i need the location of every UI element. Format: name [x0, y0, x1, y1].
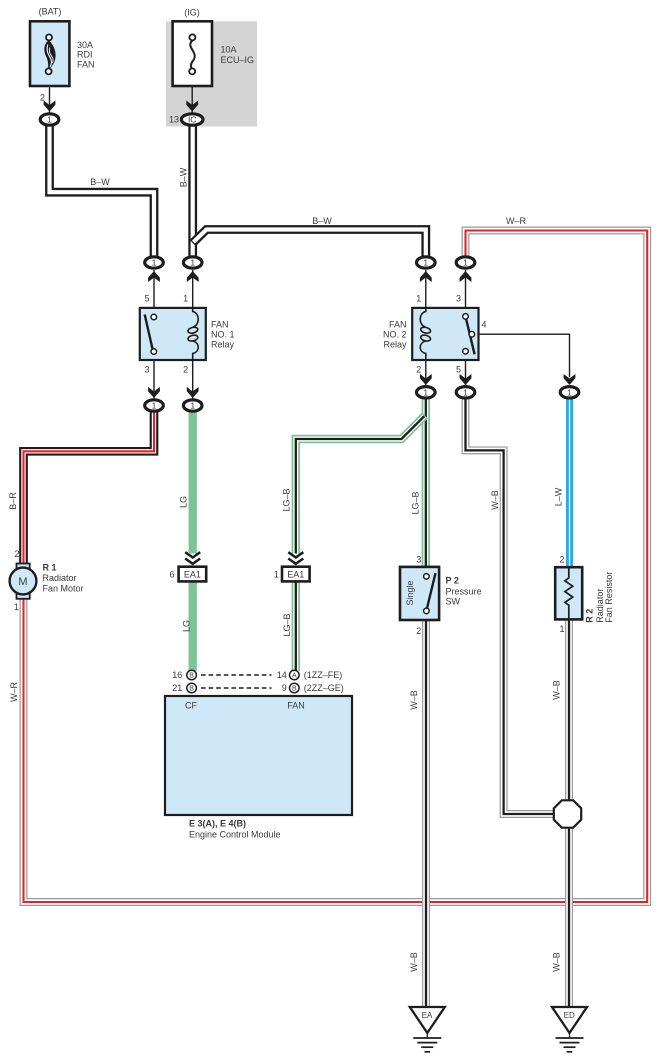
dashed link pins 21-9 — [201, 687, 272, 689]
svg-text:1: 1 — [183, 294, 188, 304]
svg-text:Engine Control Module: Engine Control Module — [189, 830, 281, 840]
wire label LG-B (lower, rotated) — [282, 613, 292, 636]
pin label 9 ECM — [282, 683, 287, 693]
svg-text:B–W: B–W — [312, 216, 332, 226]
dashed link pins 16-14 — [201, 674, 272, 676]
relay2 switch blade — [466, 319, 475, 355]
svg-text:1: 1 — [423, 258, 428, 268]
connector 1 below relay2 pin 4 — [560, 387, 579, 398]
arrow into BAT connector — [44, 101, 56, 112]
connector 1 above relay1 pin 1 — [183, 257, 202, 268]
svg-text:ECU–IG: ECU–IG — [221, 55, 255, 65]
pin label 3 relay1 — [144, 365, 149, 375]
svg-text:FAN: FAN — [287, 701, 305, 711]
fuse 30A RDI FAN (BAT) — [30, 21, 69, 86]
label R1 Radiator Fan Motor — [43, 563, 84, 594]
ECM pin circle B 16 — [187, 670, 197, 680]
EA1 junction left: box — [179, 567, 207, 582]
wire B-R from FAN NO.1 relay pin 3 connector to motor pin 2 — [24, 410, 155, 565]
svg-text:L–W: L–W — [554, 487, 564, 506]
thin line relay2 pin 5 — [465, 360, 467, 387]
svg-text:RDI: RDI — [77, 50, 93, 60]
label FAN NO.2 Relay — [383, 320, 407, 350]
svg-text:2: 2 — [559, 554, 564, 564]
svg-text:Pressure: Pressure — [446, 587, 482, 597]
pin label 13 IC — [169, 115, 179, 125]
wire label W-R (top run) — [506, 216, 527, 226]
ground EA triangle — [410, 1007, 445, 1033]
wire LG from EA1 junction to ECM pin 16 CF — [189, 581, 197, 671]
connector 1 below relay2 pin 2 — [417, 387, 436, 398]
pin label 1 EA1 — [274, 570, 279, 580]
pin label 2 BAT — [40, 92, 45, 102]
pin label 2 relay1 — [183, 365, 188, 375]
ECM engine control module box — [165, 696, 352, 815]
wire label LG (lower, rotated) — [182, 620, 192, 632]
svg-text:1: 1 — [190, 258, 195, 268]
svg-text:16: 16 — [172, 670, 182, 680]
svg-text:1: 1 — [14, 602, 19, 612]
svg-text:Radiator: Radiator — [43, 573, 77, 583]
wire label W-B (P2 upper, rotated) — [409, 690, 419, 710]
svg-text:2: 2 — [14, 549, 19, 559]
pin label 1 motor — [14, 602, 19, 612]
svg-text:1: 1 — [567, 388, 572, 398]
arrow down into connector relay1 pin 3 — [148, 387, 160, 398]
svg-text:1: 1 — [463, 388, 468, 398]
svg-text:IC: IC — [188, 115, 197, 125]
svg-text:LG–B: LG–B — [282, 613, 292, 636]
svg-text:NO. 1: NO. 1 — [211, 330, 235, 340]
svg-text:(2ZZ–GE): (2ZZ–GE) — [304, 683, 344, 693]
pin label 14 ECM — [277, 670, 287, 680]
EA1 junction right: double chevron — [288, 552, 303, 564]
svg-text:1: 1 — [463, 258, 468, 268]
EA1 junction left: double chevron — [185, 552, 200, 564]
svg-text:W–B: W–B — [409, 690, 419, 710]
arrow up into connector above relay1 pin 1 — [187, 271, 199, 282]
relay1 switch contacts — [151, 314, 157, 354]
ground ED hatching — [556, 1033, 584, 1052]
wire W-B from FAN NO.2 relay pin 5 connector to splice octagon — [466, 397, 557, 814]
svg-text:LG: LG — [178, 496, 188, 508]
label (2ZZ-GE) — [304, 683, 344, 693]
pin label 3 P2 — [416, 554, 421, 564]
label 30A RDI FAN — [77, 40, 95, 69]
svg-text:(1ZZ–FE): (1ZZ–FE) — [304, 670, 343, 680]
wire label LG-B (main, rotated) — [411, 491, 421, 514]
label (1ZZ-FE) — [304, 670, 343, 680]
svg-text:B–W: B–W — [90, 177, 110, 187]
pin label 3 relay2 — [456, 294, 461, 304]
label R2 Radiator Fan Resistor (rotated) — [585, 572, 615, 623]
svg-text:B: B — [292, 686, 297, 693]
wire L-W from pin4 connector to radiator fan resistor pin 2 — [566, 397, 573, 568]
wire W-B from pressure switch pin 2 to ground EA — [422, 620, 430, 1008]
svg-text:1: 1 — [190, 401, 195, 411]
pin label 2 relay2 — [416, 365, 421, 375]
wire label B-W (long run to relay2) — [312, 216, 332, 226]
pin label 4 relay2 — [482, 320, 487, 330]
wire LG-B from EA1 junction to ECM pin 14 FAN — [292, 581, 300, 671]
svg-text:13: 13 — [169, 115, 179, 125]
svg-text:Relay: Relay — [211, 340, 235, 350]
connector 1 below relay2 pin 5 — [456, 387, 475, 398]
connector 1 below relay1 pin 3 — [145, 400, 164, 411]
wire B-W from BAT fuse connector 1 to FAN NO.1 relay pin 5 connector — [50, 124, 155, 258]
pin label 2 P2 — [416, 626, 421, 636]
svg-text:EA1: EA1 — [287, 570, 304, 580]
connector IC below IG fuse — [181, 114, 203, 125]
pin label 5 relay1 — [144, 294, 149, 304]
arrow down into connector relay2 pin 2 — [420, 374, 432, 385]
svg-text:3: 3 — [144, 365, 149, 375]
ground ED triangle — [552, 1007, 587, 1033]
svg-text:30A: 30A — [77, 40, 93, 50]
thin line relay2 pin 2 — [425, 360, 427, 387]
wire label L-W (rotated) — [554, 487, 564, 506]
svg-text:R 2: R 2 — [585, 609, 595, 623]
thin line relay1 pin 2 — [192, 360, 194, 400]
svg-text:B–R: B–R — [8, 492, 18, 510]
pin label 2 R2 — [559, 554, 564, 564]
svg-text:R 1: R 1 — [43, 563, 57, 573]
relay FAN NO.2 box — [412, 308, 478, 360]
pressure switch P2 box — [400, 567, 439, 620]
relay1 coil — [187, 308, 198, 360]
wire label W-B (EA lower, rotated) — [409, 952, 419, 972]
svg-text:B: B — [189, 686, 194, 693]
svg-text:10A: 10A — [221, 45, 237, 55]
svg-text:Fan Motor: Fan Motor — [43, 583, 84, 593]
P2 switch contacts — [424, 574, 430, 614]
svg-text:14: 14 — [277, 670, 287, 680]
svg-text:LG–B: LG–B — [282, 488, 292, 511]
svg-text:2: 2 — [40, 92, 45, 102]
svg-text:5: 5 — [456, 365, 461, 375]
thin line relay1 pin 1 — [192, 270, 194, 308]
svg-text:W–R: W–R — [9, 682, 19, 703]
svg-text:FAN: FAN — [211, 320, 229, 330]
arrow down into connector relay1 pin 2 — [187, 387, 199, 398]
thin line relay1 pin 3 — [153, 360, 155, 400]
svg-text:Fan Resistor: Fan Resistor — [604, 572, 614, 623]
relay1 switch blade — [145, 315, 153, 350]
svg-text:1: 1 — [274, 570, 279, 580]
svg-text:1: 1 — [152, 401, 157, 411]
svg-text:6: 6 — [169, 570, 174, 580]
svg-text:SW: SW — [446, 597, 461, 607]
pin label 16 ECM — [172, 670, 182, 680]
pin label 6 EA1 — [169, 570, 174, 580]
svg-text:EA: EA — [422, 1011, 433, 1020]
svg-text:2: 2 — [416, 626, 421, 636]
svg-text:4: 4 — [482, 320, 487, 330]
pin label 21 ECM — [172, 683, 182, 693]
svg-text:FAN: FAN — [77, 59, 95, 69]
connector 1 above relay1 pin 5 — [145, 257, 164, 268]
svg-text:B–W: B–W — [179, 167, 189, 187]
wire label W-B (ED lower, rotated) — [552, 952, 562, 972]
label FAN NO.1 Relay — [211, 320, 235, 350]
relay2 coil — [420, 308, 431, 360]
svg-text:M: M — [18, 576, 27, 588]
arrow up into connector above relay2 pin 3 — [460, 271, 472, 282]
thin line relay2 pin 3 — [465, 270, 467, 308]
svg-text:2: 2 — [183, 365, 188, 375]
wire label B-W (IC run, rotated) — [179, 167, 189, 187]
label 10A ECU-IG — [221, 45, 255, 65]
svg-text:Single: Single — [405, 580, 415, 605]
svg-text:W–R: W–R — [506, 216, 527, 226]
gray block around IG fuse — [166, 21, 257, 126]
svg-text:W–B: W–B — [552, 952, 562, 972]
svg-text:EA1: EA1 — [184, 570, 201, 580]
arrow into IC connector — [186, 101, 198, 112]
svg-text:21: 21 — [172, 683, 182, 693]
svg-text:(IG): (IG) — [184, 8, 200, 18]
relay2 switch contacts — [463, 314, 475, 355]
wire W-R loop: motor pin1 down, across bottom, up right side, to FAN NO.2 relay pin 3 connector — [24, 231, 648, 903]
connector 1 below relay1 pin 2 — [183, 400, 202, 411]
EA1 junction right: box — [282, 567, 310, 582]
wire label W-B (R2 upper, rotated) — [552, 680, 562, 700]
arrow down into connector relay2 pin 4 — [564, 374, 576, 385]
pin label 2 motor — [14, 549, 19, 559]
arrow up into connector above relay1 pin 5 — [148, 271, 160, 282]
splice octagon junction — [554, 800, 581, 827]
label FAN — [287, 701, 305, 711]
P2 switch blade — [427, 573, 436, 609]
svg-text:LG: LG — [182, 620, 192, 632]
pin label 5 relay2 — [456, 365, 461, 375]
arrow up into connector above relay2 pin 1 — [420, 271, 432, 282]
wire B-W from ECU-IG IC connector down to FAN NO.1 relay pin 1 connector — [188, 125, 197, 258]
svg-text:3: 3 — [456, 294, 461, 304]
pin label 1 relay2 — [416, 294, 421, 304]
arrow down into connector relay2 pin 5 — [460, 374, 472, 385]
svg-text:Relay: Relay — [383, 340, 407, 350]
svg-text:FAN: FAN — [389, 320, 407, 330]
connector 1 above relay2 pin 1 — [417, 257, 436, 268]
svg-text:1: 1 — [47, 115, 52, 125]
connector 1 above relay2 pin 3 — [456, 257, 475, 268]
wire label B-W (BAT run) — [90, 177, 110, 187]
thin line relay2 pin 1 — [425, 270, 427, 308]
wire label B-R (rotated) — [8, 492, 18, 510]
pin label 1 R2 — [559, 624, 564, 634]
label Single (rotated, inside P2) — [405, 580, 415, 605]
wire LG from FAN NO.1 relay pin 2 connector to EA1 junction — [189, 410, 197, 554]
thin line relay2 pin 4 to connector — [474, 334, 570, 377]
resistor R2 radiator fan resistor box — [555, 567, 582, 619]
svg-text:E 3(A), E 4(B): E 3(A), E 4(B) — [189, 819, 246, 829]
svg-text:ED: ED — [564, 1011, 575, 1020]
fuse 10A ECU-IG (IG) — [173, 21, 212, 86]
svg-text:1: 1 — [416, 294, 421, 304]
pin label 1 relay1 — [183, 294, 188, 304]
thin line BAT fuse to connector — [49, 86, 51, 113]
ECM pin circle B 21 — [187, 683, 197, 693]
svg-text:2: 2 — [416, 365, 421, 375]
svg-text:9: 9 — [282, 683, 287, 693]
label CF — [185, 701, 197, 711]
motor R1 radiator fan motor — [10, 564, 37, 599]
svg-text:W–B: W–B — [490, 490, 500, 510]
wire LG-B from FAN NO.2 relay pin 2 connector down to pressure switch pin 3 — [422, 397, 430, 568]
svg-text:W–B: W–B — [409, 952, 419, 972]
svg-text:(BAT): (BAT) — [39, 7, 62, 17]
wire label W-R (left run, rotated) — [9, 682, 19, 703]
wire label W-B (pin5 run, rotated) — [490, 490, 500, 510]
label (IG) — [184, 8, 200, 18]
thin line relay1 pin 5 — [153, 270, 155, 308]
svg-text:LG–B: LG–B — [411, 491, 421, 514]
svg-text:B: B — [189, 673, 194, 680]
wire LG-B branch to EA1 junction and down toward ECM pin 14 FAN — [296, 416, 425, 554]
svg-text:NO. 2: NO. 2 — [383, 330, 407, 340]
relay FAN NO.1 box — [140, 308, 206, 360]
svg-text:1: 1 — [559, 624, 564, 634]
wire B-W branch from IC wire to FAN NO.2 relay pin 1 connector — [193, 230, 426, 259]
svg-text:W–B: W–B — [552, 680, 562, 700]
label E3(A), E4(B) Engine Control Module — [189, 819, 281, 840]
label P2 Pressure SW — [446, 576, 482, 607]
ground EA hatching — [413, 1033, 441, 1052]
svg-text:3: 3 — [416, 554, 421, 564]
svg-text:A: A — [292, 673, 297, 680]
label (BAT) — [39, 7, 62, 17]
thin line IG fuse to IC connector — [191, 86, 193, 113]
ECM pin circle A 14 — [290, 670, 300, 680]
svg-text:1: 1 — [152, 258, 157, 268]
svg-text:5: 5 — [144, 294, 149, 304]
svg-text:P 2: P 2 — [446, 576, 459, 586]
wire W-B from radiator fan resistor pin 1 through splice to ground ED — [565, 620, 573, 1008]
wire label LG-B (branch, rotated) — [282, 488, 292, 511]
svg-text:1: 1 — [423, 388, 428, 398]
svg-text:CF: CF — [185, 701, 197, 711]
ECM pin circle B 9 — [290, 683, 300, 693]
connector 1 below BAT fuse — [40, 114, 59, 125]
wire label LG (upper, rotated) — [178, 496, 188, 508]
